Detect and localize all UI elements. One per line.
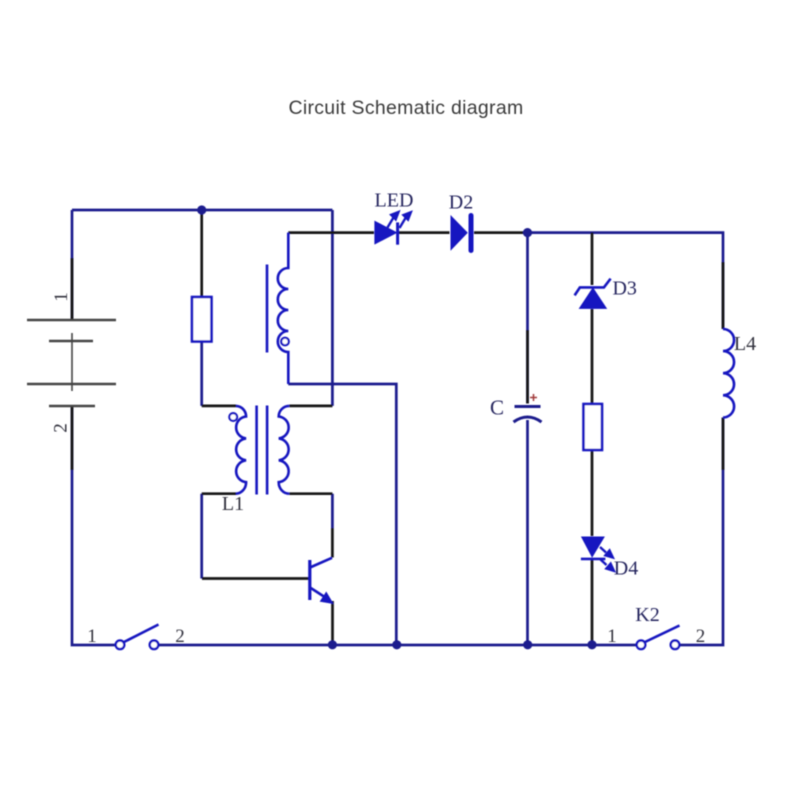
svg-text:L4: L4: [734, 333, 756, 355]
svg-text:1: 1: [607, 626, 617, 647]
svg-text:D2: D2: [449, 192, 473, 214]
svg-text:1: 1: [87, 626, 97, 647]
svg-text:2: 2: [51, 423, 72, 433]
svg-text:1: 1: [51, 292, 72, 302]
svg-text:K2: K2: [635, 604, 659, 626]
svg-text:C: C: [490, 396, 504, 420]
svg-text:Circuit Schematic diagram: Circuit Schematic diagram: [288, 97, 523, 119]
svg-text:D3: D3: [612, 278, 636, 300]
svg-text:LED: LED: [375, 190, 414, 212]
svg-text:2: 2: [175, 626, 185, 647]
svg-text:2: 2: [696, 626, 706, 647]
svg-text:L1: L1: [222, 493, 244, 515]
svg-text:D4: D4: [614, 558, 638, 580]
